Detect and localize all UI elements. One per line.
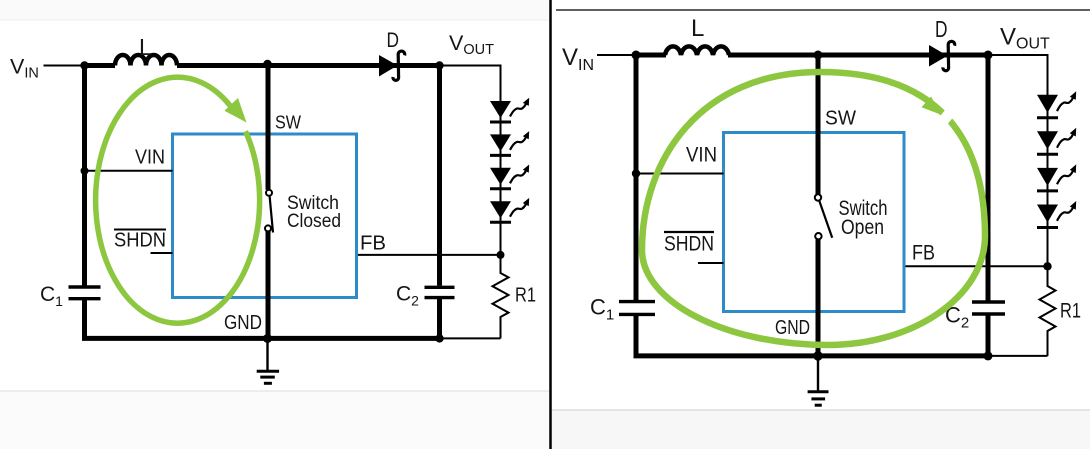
current loop arrow (right, green ellipse) bbox=[642, 72, 985, 345]
svg-text:SHDN: SHDN bbox=[114, 230, 166, 252]
junction VIN pin on bus (right) bbox=[632, 169, 640, 177]
junction SW top (right) bbox=[814, 51, 823, 60]
pin SHDN lead (left) bbox=[151, 252, 173, 254]
capacitor C1 (left) bbox=[69, 287, 101, 299]
wire top rail (right) bbox=[634, 53, 989, 58]
LED D3 (right) bbox=[1037, 164, 1076, 191]
svg-text:R1: R1 bbox=[515, 285, 536, 307]
LED D4 (left) bbox=[490, 198, 529, 222]
IC U1 boost converter box (left) bbox=[173, 134, 357, 298]
junction FB node (left) bbox=[497, 251, 505, 259]
wire right bus / C2 branch (right) bbox=[986, 53, 991, 358]
junction VOUT node (right) bbox=[984, 51, 993, 60]
svg-text:GND: GND bbox=[775, 316, 810, 339]
pin VIN lead (right) bbox=[636, 173, 724, 175]
svg-text:D: D bbox=[935, 16, 948, 42]
junction C2 bottom (right) bbox=[984, 351, 993, 360]
wire VIN lead (right) bbox=[597, 54, 636, 56]
svg-text:SHDN: SHDN bbox=[664, 232, 714, 256]
capacitor C2 (right) bbox=[972, 302, 1005, 314]
left panel faint bottom edge bbox=[0, 391, 549, 449]
capacitor C2 (left) bbox=[425, 287, 455, 297]
wire FB (right) bbox=[904, 265, 1048, 267]
IC U1 boost converter box (right) bbox=[724, 133, 905, 312]
wire left input bus (right) bbox=[634, 53, 639, 358]
svg-text:SW: SW bbox=[825, 107, 857, 130]
svg-text:GND: GND bbox=[224, 312, 262, 334]
wire top rail (left) bbox=[82, 63, 440, 68]
switch SW open (right) bbox=[815, 55, 832, 356]
inductor L (right) bbox=[665, 46, 729, 55]
wire bottom rail (left) bbox=[82, 336, 501, 341]
right panel top border bbox=[556, 9, 1090, 11]
LED D1 (right) bbox=[1037, 91, 1076, 118]
svg-text:FB: FB bbox=[912, 241, 935, 265]
junction FB node (right) bbox=[1043, 262, 1051, 270]
wire LED branch (right) bbox=[988, 55, 1048, 266]
svg-text:D: D bbox=[387, 28, 400, 52]
wire LED branch (left) bbox=[440, 66, 501, 255]
ground symbol (right) bbox=[808, 356, 829, 405]
LED D2 (left) bbox=[490, 131, 529, 155]
svg-text:R1: R1 bbox=[1060, 299, 1081, 323]
diode D (left) bbox=[379, 51, 405, 80]
wire right bus / C2 branch (left) bbox=[437, 63, 442, 340]
pin VIN lead (left) bbox=[85, 170, 173, 172]
panel divider bbox=[549, 0, 552, 449]
LED D2 (right) bbox=[1037, 128, 1076, 155]
wire bottom rail (right) bbox=[634, 353, 1048, 358]
diode D (right) bbox=[929, 41, 955, 70]
inductor L (left) bbox=[115, 55, 177, 66]
LED D3 (left) bbox=[490, 165, 529, 189]
junction VIN pin on bus (left) bbox=[81, 167, 89, 175]
junction VOUT node (left) bbox=[435, 61, 443, 69]
current loop arrow (left, green ellipse) bbox=[96, 77, 260, 323]
junction GND node (left) bbox=[263, 334, 272, 343]
ground symbol (left) bbox=[257, 338, 279, 383]
svg-text:L: L bbox=[139, 34, 152, 60]
svg-text:VIN: VIN bbox=[686, 143, 717, 167]
right panel bottom border bbox=[552, 409, 1090, 411]
svg-text:SW: SW bbox=[275, 112, 301, 133]
junction top-left corner (right) bbox=[632, 51, 641, 60]
junction top-left corner (left) bbox=[80, 61, 88, 69]
svg-text:Closed: Closed bbox=[287, 210, 341, 232]
junction SW top (left) bbox=[263, 60, 271, 68]
junction GND node (right) bbox=[813, 351, 823, 361]
wire left input bus (left) bbox=[82, 63, 87, 340]
svg-text:FB: FB bbox=[360, 233, 386, 255]
resistor R1 (left) bbox=[493, 255, 509, 339]
junction C2 bottom (left) bbox=[435, 334, 443, 342]
left panel faint top edge bbox=[0, 0, 549, 20]
pin label SHDN with overline (left) bbox=[114, 230, 166, 252]
svg-text:Open: Open bbox=[841, 216, 884, 239]
pin label SHDN with overline (right) bbox=[664, 232, 714, 256]
svg-text:VIN: VIN bbox=[135, 147, 165, 169]
wire FB (left) bbox=[357, 254, 501, 256]
LED D1 (left) bbox=[490, 98, 529, 122]
resistor R1 (right) bbox=[1040, 266, 1056, 356]
svg-text:L: L bbox=[691, 15, 704, 42]
LED D4 (right) bbox=[1037, 201, 1076, 228]
switch SW closed (left) bbox=[265, 66, 273, 339]
pin SHDN lead (right) bbox=[698, 262, 724, 264]
wire VIN lead (left) bbox=[44, 65, 85, 67]
capacitor C1 (right) bbox=[619, 302, 655, 315]
